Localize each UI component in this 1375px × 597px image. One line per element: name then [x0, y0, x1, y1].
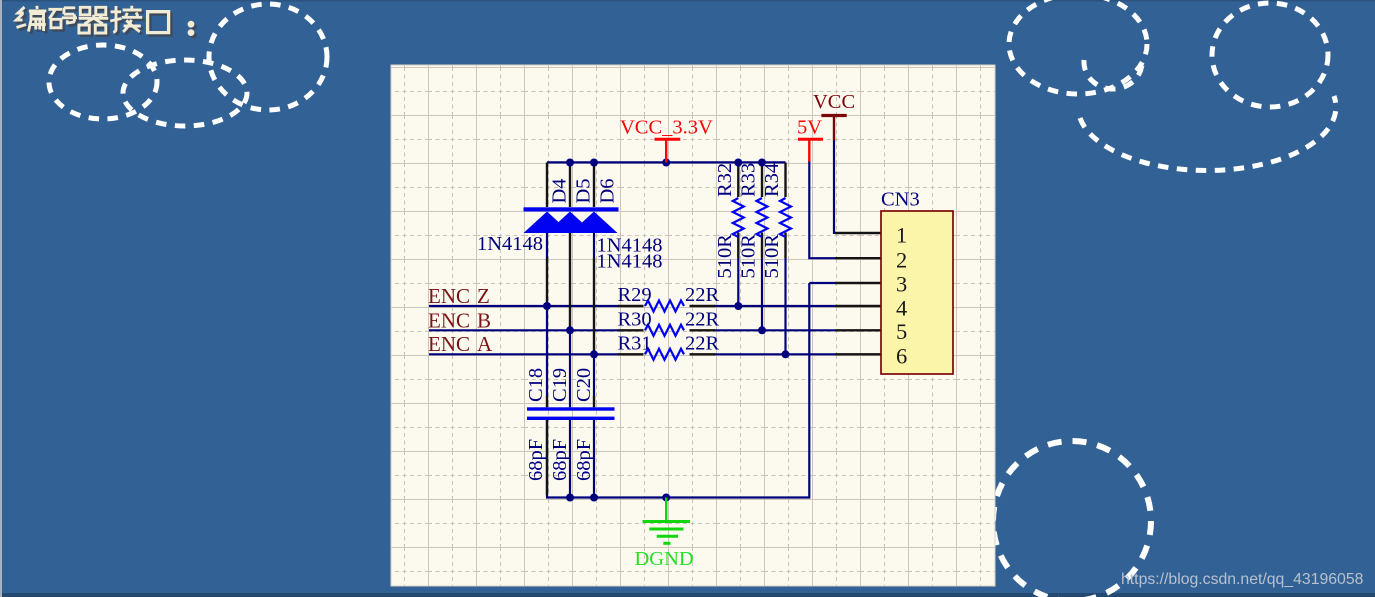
- svg-text:D6: D6: [597, 178, 619, 203]
- svg-text:DGND: DGND: [635, 548, 694, 570]
- svg-text:510R: 510R: [761, 234, 783, 279]
- svg-text:1N4148: 1N4148: [477, 233, 543, 255]
- svg-text:CN3: CN3: [881, 189, 920, 211]
- svg-text:68pF: 68pF: [525, 439, 547, 481]
- svg-text:R32: R32: [714, 163, 736, 197]
- svg-text:22R: 22R: [685, 309, 720, 331]
- svg-text:C20: C20: [573, 368, 595, 402]
- svg-text:VCC_3.3V: VCC_3.3V: [620, 117, 713, 139]
- svg-text:5V: 5V: [797, 117, 822, 139]
- svg-text:B: B: [477, 308, 491, 332]
- svg-text:R29: R29: [618, 284, 652, 306]
- svg-text:1N4148: 1N4148: [597, 251, 663, 273]
- svg-text:510R: 510R: [714, 234, 736, 279]
- svg-text:22R: 22R: [685, 333, 720, 355]
- svg-text:2: 2: [896, 248, 907, 273]
- svg-text:3: 3: [896, 272, 907, 297]
- svg-text:ENC: ENC: [428, 308, 470, 332]
- svg-text:D5: D5: [573, 178, 595, 203]
- svg-text:ENC: ENC: [428, 332, 470, 356]
- svg-text:6: 6: [896, 344, 907, 369]
- svg-text:510R: 510R: [738, 234, 760, 279]
- svg-text:22R: 22R: [685, 284, 720, 306]
- svg-text:Z: Z: [477, 284, 490, 308]
- svg-text:VCC: VCC: [813, 91, 855, 113]
- svg-text:R33: R33: [738, 163, 760, 197]
- svg-text:1: 1: [896, 223, 907, 248]
- svg-text:A: A: [477, 332, 493, 356]
- svg-text:R34: R34: [761, 163, 783, 197]
- svg-text:68pF: 68pF: [573, 439, 595, 481]
- svg-text:5: 5: [896, 319, 907, 344]
- svg-text:R31: R31: [618, 333, 652, 355]
- svg-text:https://blog.csdn.net/qq_43196: https://blog.csdn.net/qq_43196058: [1121, 571, 1364, 588]
- svg-text:4: 4: [896, 296, 907, 321]
- svg-text:C19: C19: [549, 368, 571, 402]
- svg-text:R30: R30: [618, 309, 652, 331]
- svg-text:C18: C18: [525, 368, 547, 402]
- svg-text:68pF: 68pF: [549, 439, 571, 481]
- svg-text:D4: D4: [549, 178, 571, 203]
- svg-text:ENC: ENC: [428, 284, 470, 308]
